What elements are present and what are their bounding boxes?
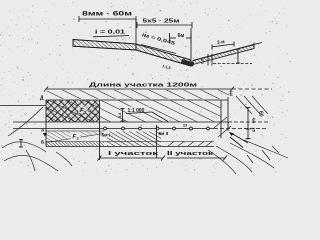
svg-text:8мм · 60м: 8мм · 60м xyxy=(82,12,133,18)
contour curves bottom-right xyxy=(208,140,288,174)
dimension 6м xyxy=(170,33,192,43)
dashed ground line xyxy=(213,63,252,65)
svg-text:6м: 6м xyxy=(178,33,185,39)
bracket II участок xyxy=(167,156,227,161)
roadway band 1 (hatched) xyxy=(73,40,136,51)
label 6м II xyxy=(158,130,173,136)
dimension line 5х5·25м xyxy=(137,22,192,28)
label 6м I xyxy=(101,131,114,138)
svg-text:25: 25 xyxy=(252,128,257,133)
label 1:1 000 with leader xyxy=(127,107,150,115)
centerline with circles xyxy=(13,127,268,130)
svg-text:3 м: 3 м xyxy=(217,39,226,46)
dimension 3 м xyxy=(212,42,234,50)
svg-text:II участок: II участок xyxy=(167,151,214,157)
right vertical dimension xyxy=(246,107,251,139)
road edge curving down-left xyxy=(8,107,43,136)
ditch detail verticals xyxy=(208,54,212,66)
title dimension line Длина участка 1200м xyxy=(44,87,272,92)
svg-text:I участок: I участок xyxy=(108,151,159,157)
line y=141 xyxy=(46,141,214,143)
svg-text:0,5: 0,5 xyxy=(201,59,205,64)
F2 label xyxy=(71,132,81,141)
hatch right of band end xyxy=(214,96,268,137)
terrain hatch above and inside band xyxy=(46,90,229,122)
point А with marker xyxy=(41,128,47,145)
vertical line x=165 xyxy=(156,125,158,158)
svg-text:Д: Д xyxy=(40,96,44,102)
ditch bottom wedge xyxy=(181,59,194,67)
rising slope band 3 xyxy=(193,43,262,65)
contour curves bottom-left xyxy=(2,142,72,171)
extension line to ditch xyxy=(190,28,192,59)
small depth dim x=124 xyxy=(121,108,125,122)
small left dimension xyxy=(19,139,23,148)
slope band 2 (hatched) xyxy=(136,44,191,66)
right depth dimension xyxy=(236,49,240,64)
extension line xyxy=(135,19,137,44)
sparse hatch strip right xyxy=(168,142,212,147)
long inner line y=122 xyxy=(13,121,228,123)
svg-text:Длина участка 1200м: Длина участка 1200м xyxy=(89,83,197,89)
F1 dotted/cross-hatched area xyxy=(46,100,100,121)
leader arrow to band corner xyxy=(229,132,248,148)
svg-text:i = 0,01: i = 0,01 xyxy=(95,30,125,36)
svg-text:0,4: 0,4 xyxy=(118,112,122,118)
F1 label xyxy=(78,106,88,115)
bracket I участок xyxy=(98,156,166,161)
dimension line 8мм·60м xyxy=(79,16,136,22)
vertical line x=99.5 xyxy=(99,100,101,160)
F2 hatched wedge xyxy=(46,131,104,143)
svg-text:5х5 · 25м: 5х5 · 25м xyxy=(143,19,180,25)
left road edge line xyxy=(0,105,46,107)
dense dark hatch strip xyxy=(46,142,104,146)
band outline xyxy=(46,97,228,147)
svg-text:6м: 6м xyxy=(252,118,257,123)
dense steep hatch parallelogram xyxy=(107,132,161,147)
svg-text:23: 23 xyxy=(183,124,187,128)
scan speckle noise xyxy=(0,0,291,173)
